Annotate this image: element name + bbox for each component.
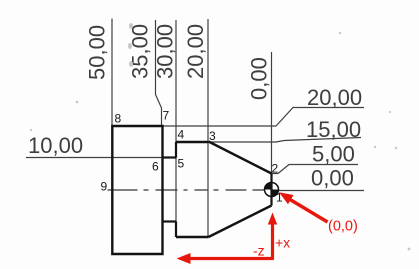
part: cone top edge [209, 142, 272, 174]
leader X=5 (right) [272, 165, 359, 174]
svg-text:9: 9 [101, 180, 108, 194]
svg-text:7: 7 [163, 109, 170, 123]
svg-text:5,00: 5,00 [312, 142, 355, 167]
svg-text:5: 5 [178, 157, 185, 171]
centerline [108, 189, 265, 191]
svg-text:2: 2 [272, 162, 279, 176]
part: step face top [175, 142, 177, 158]
svg-text:50,00: 50,00 [85, 25, 110, 80]
red axis arrow +x shaft [271, 222, 274, 260]
svg-text:20,00: 20,00 [183, 24, 208, 79]
origin symbol SE quadrant [272, 190, 279, 197]
svg-text:+x: +x [275, 235, 290, 251]
svg-text:35,00: 35,00 [128, 24, 153, 79]
svg-text:8: 8 [115, 112, 122, 126]
red origin arrow shaft [290, 200, 328, 223]
svg-text:30,00: 30,00 [153, 24, 178, 79]
origin symbol NW quadrant [265, 183, 272, 190]
svg-text:(0,0): (0,0) [328, 219, 358, 235]
red axis arrow -z head [177, 253, 191, 264]
svg-text:15,00: 15,00 [306, 117, 361, 142]
red axis arrow -z shaft [189, 257, 274, 260]
svg-text:4: 4 [178, 128, 185, 142]
svg-text:0,00: 0,00 [247, 57, 272, 100]
svg-text:10,00: 10,00 [28, 133, 83, 158]
red axis arrow +x head [268, 213, 277, 225]
svg-text:6: 6 [152, 160, 159, 174]
extension line Z=20 [207, 19, 209, 237]
leader X=20 (right) [163, 108, 364, 127]
part: step face bottom [175, 222, 177, 238]
leader X=15 (right) [209, 138, 362, 143]
extension line Z=35 with jog [156, 20, 162, 126]
svg-text:-z: -z [253, 243, 265, 259]
extension line Z=50 [111, 19, 113, 127]
faint scan ghost marks [30, 23, 411, 250]
part: groove bottom edge [163, 220, 177, 222]
leader X=0 (right) [279, 190, 365, 192]
part: cone end face [270, 174, 272, 206]
part: medium cylinder top edge [176, 141, 209, 143]
leader X=10 (left) [26, 157, 163, 159]
part: cone bottom edge [209, 206, 272, 238]
extension line Z=0 [271, 52, 273, 174]
origin symbol circle [265, 183, 279, 197]
part: medium cylinder bottom edge [176, 236, 209, 238]
red origin arrow head [279, 192, 294, 204]
extension line Z=30 [175, 20, 177, 237]
part: groove top edge [163, 156, 177, 158]
svg-text:3: 3 [209, 129, 216, 143]
svg-text:0,00: 0,00 [311, 166, 354, 191]
part outline: big cylinder rect [112, 126, 162, 254]
svg-text:20,00: 20,00 [307, 85, 362, 110]
